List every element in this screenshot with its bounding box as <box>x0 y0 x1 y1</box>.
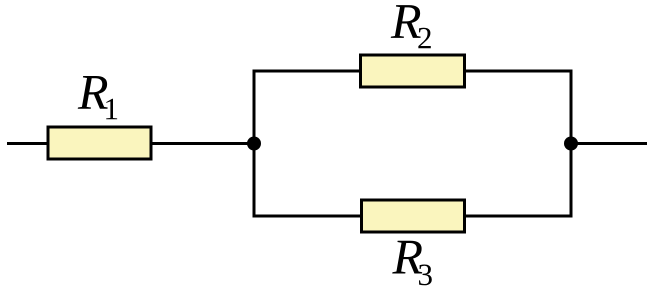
node B (right junction) <box>564 137 578 151</box>
label R1 <box>78 76 117 119</box>
resistor R1 <box>48 127 151 159</box>
wire left lead <box>7 142 48 145</box>
wire R1 to left node <box>151 142 254 145</box>
wire parallel loop <box>254 71 571 216</box>
label R3 <box>392 241 432 286</box>
resistor R2 <box>361 55 465 87</box>
label R2 <box>391 5 431 48</box>
node A (left junction) <box>247 137 261 151</box>
resistor R3 <box>362 200 465 232</box>
wire right lead <box>571 142 647 145</box>
